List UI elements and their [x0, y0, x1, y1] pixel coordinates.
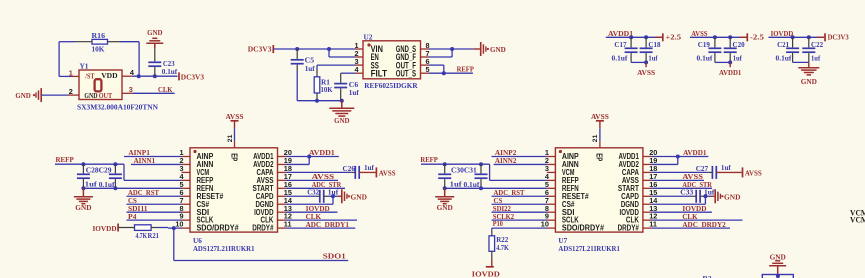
- part number ADS127L21IRUKR1 (U6): [193, 244, 255, 253]
- svg-text:DRDY#: DRDY#: [618, 224, 640, 233]
- ground GND (U2 right, bar style): [473, 42, 506, 56]
- resistor R1: [314, 70, 320, 101]
- capacitor C5: [291, 49, 304, 101]
- label C6: [349, 80, 359, 89]
- value 1uf (C22): [811, 53, 821, 62]
- svg-text:10K: 10K: [321, 85, 333, 94]
- resistor R22: [489, 236, 495, 267]
- svg-text:AVSS: AVSS: [637, 68, 655, 77]
- svg-text:AVSS: AVSS: [379, 168, 396, 177]
- junction at C19: [713, 35, 717, 39]
- svg-text:C22: C22: [811, 40, 823, 49]
- node AVDD1 (U6): [286, 148, 339, 164]
- junction at C30 bottom: [443, 186, 447, 190]
- ground GND (bottom right): [769, 252, 786, 274]
- svg-text:SDO/DRDY#: SDO/DRDY#: [562, 224, 605, 233]
- svg-text:IOVDD: IOVDD: [93, 224, 118, 233]
- wire R16 left to Y1 pin1: [59, 42, 75, 77]
- part number REF6025IDGKR: [364, 81, 418, 90]
- svg-text:C33: C33: [680, 187, 693, 196]
- wire GND_S net: [429, 49, 473, 57]
- pin 2 (U6): [179, 156, 190, 165]
- label C20: [733, 40, 745, 49]
- pin 7 (U7): [545, 196, 556, 205]
- junction bottom (AVDD1): [728, 60, 732, 64]
- connector (bottom edge, partial): [762, 274, 793, 278]
- pin name REFN (U7): [562, 184, 579, 193]
- value 0.1uf (C17): [612, 53, 628, 62]
- junction at C29 top: [113, 162, 117, 166]
- svg-text:C21: C21: [777, 40, 789, 49]
- node AINN2: [494, 156, 547, 165]
- power port AVSS (C26): [376, 167, 395, 177]
- pin name EP (U6): [229, 153, 238, 161]
- pin name AINP (U7): [562, 152, 579, 161]
- svg-text:21: 21: [227, 134, 234, 142]
- crystal symbol Y1: [95, 79, 102, 91]
- pin name EP (U7): [595, 153, 604, 161]
- svg-text:ADS127L21IRUKR1: ADS127L21IRUKR1: [193, 244, 255, 253]
- pin 21 EP (U7): [592, 134, 600, 147]
- resistor R21: [118, 225, 168, 231]
- junction at C20: [728, 35, 732, 39]
- label C21: [777, 40, 789, 49]
- value 0.1uf (C19): [697, 53, 713, 62]
- value 1uf (C32): [328, 187, 339, 196]
- node VCM (upper): [850, 208, 865, 217]
- node CS (U6): [127, 196, 182, 205]
- part number ADS127L21IRUKR1 (U7): [558, 244, 620, 253]
- pin name DGND (U7): [621, 200, 639, 209]
- pin 3 (Y1): [122, 85, 133, 94]
- pin 14 (U6): [278, 196, 293, 205]
- svg-text:ADC_DRDY1: ADC_DRDY1: [306, 220, 349, 229]
- value 1uf (C18): [648, 53, 658, 62]
- node P4: [127, 212, 182, 221]
- node ADC_STR (U6): [286, 180, 345, 189]
- value 0.1uf (C23): [162, 67, 178, 76]
- ground GND (C28/C29, earth style): [74, 188, 93, 212]
- pin 17 (U6): [278, 172, 292, 181]
- pin name OUT_F: [396, 60, 417, 70]
- capacitor C32: [286, 190, 338, 203]
- capacitor C31: [475, 164, 488, 188]
- labels C28 C29: [86, 165, 112, 174]
- pin name AINN (U6): [197, 160, 214, 169]
- pin name DGND (U6): [256, 200, 274, 209]
- junction at R1 bottom: [315, 99, 319, 103]
- svg-text:AVSS: AVSS: [591, 112, 609, 121]
- pin 14 (U7): [643, 196, 658, 205]
- svg-text:C17: C17: [614, 40, 626, 49]
- pin 19 (U6): [278, 156, 292, 165]
- pin 1 (Y1): [69, 68, 79, 77]
- pin name DRDY# (U6): [252, 224, 274, 233]
- wire bottom rail (AVDD1 group): [631, 61, 646, 63]
- node SDI11: [127, 204, 182, 213]
- label C17: [614, 40, 626, 49]
- node AVDD1 (U7): [651, 148, 708, 164]
- pin1 dot (U2): [367, 43, 370, 46]
- node IOVDD (U6 pin13): [286, 204, 337, 213]
- capacitor C26: [286, 166, 376, 179]
- label Y1: [80, 62, 89, 71]
- pin name CAPA (U6): [257, 168, 274, 177]
- svg-text:IOVDD: IOVDD: [771, 29, 794, 38]
- label R1: [321, 78, 330, 87]
- junction at C18: [644, 35, 648, 39]
- pin 2 (U7): [545, 156, 556, 165]
- pin name EN: [371, 52, 379, 62]
- svg-text:0.1uf: 0.1uf: [162, 67, 178, 76]
- svg-text:Y1: Y1: [80, 62, 89, 71]
- wire pin21 (U6): [234, 128, 236, 141]
- op-amp U7 ADS127L21IRUKR1 body: [555, 148, 643, 232]
- svg-text:P10: P10: [493, 219, 503, 228]
- power port +2.5: [655, 32, 682, 41]
- svg-text:REFP: REFP: [420, 155, 438, 164]
- label C26: [343, 164, 356, 173]
- wire Y1 pin4 / DC3V3 rail: [132, 75, 177, 77]
- node AVDD1 (below C20): [719, 62, 741, 77]
- value 10K (R1): [321, 85, 333, 94]
- pin 2 (Y1): [68, 87, 79, 96]
- svg-text:VDD: VDD: [101, 71, 118, 80]
- svg-text:ADS127L21IRUKR1: ADS127L21IRUKR1: [558, 244, 620, 253]
- pin 4 (U6): [179, 172, 190, 181]
- capacitor C18: [640, 37, 653, 62]
- junction at C22: [807, 35, 811, 39]
- crystal Y1: [79, 70, 122, 100]
- node ADC_RST (U6): [127, 188, 182, 197]
- svg-text:10: 10: [541, 220, 549, 229]
- pin name GND_F: [396, 52, 417, 62]
- pin 20 (U6): [278, 148, 292, 157]
- node REFP (U6): [55, 155, 182, 180]
- pin 3 (U6): [179, 164, 190, 173]
- pin name OUT: [99, 91, 113, 100]
- pin1 dot (U7): [559, 150, 562, 153]
- ground GND (C33, bar style): [711, 189, 741, 203]
- pin 19 (U7): [643, 156, 657, 165]
- svg-text:AINN2: AINN2: [495, 156, 517, 165]
- svg-text:AVSS: AVSS: [691, 29, 707, 38]
- wire U2 SS to R1: [317, 65, 355, 70]
- label fragment (bottom edge): [703, 274, 712, 278]
- pin name CAPA (U7): [622, 168, 639, 177]
- power port IOVDD (R21): [93, 224, 119, 234]
- pin 15 (U7): [643, 188, 657, 197]
- capacitor C28: [77, 164, 90, 188]
- label C19: [698, 40, 710, 49]
- pin 15 (U6): [278, 188, 292, 197]
- svg-text:1uf: 1uf: [648, 53, 658, 62]
- pin name VIN: [371, 44, 383, 54]
- svg-text:GND: GND: [801, 77, 818, 86]
- pin name CLK (U6): [261, 216, 274, 225]
- node SDO1: [323, 251, 346, 260]
- value 4.7K (R21): [136, 231, 148, 240]
- svg-text:DRDY#: DRDY#: [252, 224, 274, 233]
- capacitor C33: [651, 190, 711, 203]
- pin 11 (U6): [278, 220, 292, 229]
- junction at C17: [629, 35, 633, 39]
- label R22: [496, 235, 508, 244]
- svg-text:C19: C19: [698, 40, 710, 49]
- power port DC3V3: [817, 32, 849, 41]
- capacitor C20: [724, 37, 737, 62]
- node AVSS (below C18): [637, 62, 655, 77]
- pin name AVDD2 (U7): [619, 160, 640, 169]
- wire REFN rail (U6): [83, 187, 181, 189]
- svg-text:C18: C18: [648, 40, 660, 49]
- junction at C21: [791, 35, 795, 39]
- pin 12 (U7): [643, 212, 657, 221]
- pin 8 (U6): [179, 204, 190, 213]
- value 10K (R16): [92, 45, 105, 54]
- pin name REFP (U6): [197, 176, 214, 185]
- op-amp U2 REF6025IDGKR body: [363, 41, 421, 79]
- value 1uf (C5): [305, 64, 316, 73]
- svg-text:0.1uf: 0.1uf: [776, 53, 792, 62]
- node REFP (U2 output): [457, 65, 475, 74]
- node AINP1: [124, 148, 182, 157]
- pin 4 (U2): [354, 65, 363, 74]
- label C5: [305, 56, 315, 65]
- value 1uf (C28): [85, 180, 98, 189]
- pin 6 (U6): [179, 188, 190, 197]
- part number SX3M32.000A10F20TNN: [77, 102, 159, 111]
- svg-text:DC3V3: DC3V3: [248, 44, 272, 53]
- node ADC_RST (U7): [492, 188, 547, 197]
- svg-text:REFP: REFP: [457, 65, 475, 74]
- svg-text:1uf: 1uf: [811, 53, 821, 62]
- junction AVDD1/AVDD2 (U6): [307, 155, 311, 159]
- junction at C29 bottom: [113, 186, 117, 190]
- pin name RESET# (U7): [562, 192, 589, 201]
- capacitor C17: [625, 37, 638, 62]
- wire P10 to R22: [491, 228, 493, 236]
- pin name DRDY# (U7): [618, 224, 640, 233]
- svg-text:GND: GND: [490, 45, 506, 54]
- pin 9 (U6): [179, 212, 190, 221]
- power port DC3V3 (crystal): [179, 72, 204, 81]
- pin 4 (U7): [545, 172, 556, 181]
- resistor R16: [75, 39, 120, 44]
- junction DGND/CAPD (U7): [703, 194, 707, 198]
- node REFP (U7): [420, 155, 547, 180]
- node ADC_DRDY2: [651, 220, 730, 229]
- svg-text:-2.5: -2.5: [750, 32, 764, 41]
- pin name SDO/DRDY# (U6): [197, 224, 240, 233]
- svg-text:AVDD1: AVDD1: [309, 148, 335, 157]
- svg-text:0.1uf: 0.1uf: [464, 180, 480, 189]
- capacitor C29: [109, 164, 122, 188]
- svg-text:0.1uf: 0.1uf: [99, 180, 115, 189]
- power port AVSS (pin21 U6): [226, 112, 244, 128]
- junction at C28 top: [81, 162, 85, 166]
- junction at C23: [153, 74, 157, 78]
- node IOVDD rail: [769, 29, 825, 38]
- pin 3 (U7): [545, 164, 556, 173]
- svg-text:CLK: CLK: [158, 85, 173, 94]
- node AINN1: [131, 156, 182, 165]
- pin 16 (U7): [643, 180, 657, 189]
- junction at C6 bottom: [340, 99, 344, 103]
- svg-text:GND: GND: [147, 28, 163, 37]
- label C27: [696, 164, 709, 173]
- pin 8 (U7): [545, 204, 556, 213]
- pin name /ST: [84, 71, 94, 80]
- svg-text:/ST: /ST: [84, 71, 94, 80]
- wire REFN rail (U7): [445, 187, 547, 189]
- op-amp U6 ADS127L21IRUKR1 body: [190, 148, 278, 232]
- ground GND (U2, earth style): [329, 101, 354, 126]
- svg-text:OUT_S: OUT_S: [396, 68, 416, 78]
- pin 20 (U7): [643, 148, 657, 157]
- label U7: [558, 236, 567, 245]
- pin 1 (U2): [354, 41, 363, 50]
- pin 4 (Y1): [122, 68, 135, 77]
- node AVSS rail: [690, 29, 746, 38]
- pin 5 (U7): [545, 180, 556, 189]
- pin name GND (Y1): [84, 91, 98, 100]
- junction DGND/CAPD (U6): [331, 194, 335, 198]
- wire OUT_F/OUT_S net: [429, 65, 473, 73]
- value 1uf (C30): [450, 180, 463, 189]
- wire pin21 (U7): [599, 128, 601, 141]
- value 1uf (C20): [733, 53, 743, 62]
- label U2: [364, 32, 373, 41]
- value 0.1uf (C29): [99, 180, 115, 189]
- svg-text:C30C31: C30C31: [451, 165, 477, 174]
- svg-text:4.7K: 4.7K: [496, 243, 509, 252]
- svg-text:OUT: OUT: [99, 91, 113, 100]
- ground GND above C23: [146, 28, 163, 48]
- pin name SCLK (U6): [197, 216, 214, 225]
- svg-text:4.7K: 4.7K: [136, 231, 148, 240]
- pin name CLK (U7): [626, 216, 639, 225]
- svg-text:U2: U2: [364, 32, 373, 41]
- pin name SDI (U6): [197, 208, 210, 217]
- svg-text:1uf: 1uf: [733, 53, 743, 62]
- pin name SDO/DRDY# (U7): [562, 224, 605, 233]
- node P10: [492, 219, 547, 228]
- label C18: [648, 40, 660, 49]
- pin name CS# (U6): [197, 200, 210, 209]
- pin1 dot (U6): [193, 150, 196, 153]
- pin 9 (U7): [545, 212, 556, 221]
- pin 18 (U7): [643, 164, 657, 173]
- power port IOVDD (R22): [472, 267, 501, 278]
- wire U2 FILT to C6: [341, 72, 355, 74]
- svg-text:FILT: FILT: [371, 68, 388, 78]
- capacitor C21: [786, 37, 799, 62]
- power port -2.5: [739, 32, 764, 41]
- svg-text:+2.5: +2.5: [665, 32, 681, 41]
- wire bottom rail (AVSS group): [715, 61, 730, 63]
- pin name REFN (U6): [197, 184, 214, 193]
- value 4.7K (R22): [496, 243, 509, 252]
- labels C30 C31: [451, 165, 477, 174]
- svg-text:10K: 10K: [92, 45, 105, 54]
- svg-text:C28C29: C28C29: [86, 165, 112, 174]
- pin name GND_S: [396, 44, 416, 54]
- pin name AINN (U7): [562, 160, 579, 169]
- node CLK (crystal out): [132, 85, 174, 94]
- pin 5 (U2): [421, 65, 430, 74]
- junction AVDD1/AVDD2 (U7): [676, 155, 680, 159]
- svg-text:GND: GND: [334, 116, 350, 125]
- junction at R16/pin4: [137, 74, 141, 78]
- svg-text:EP: EP: [595, 153, 604, 161]
- pin 1 (U6): [179, 148, 190, 157]
- svg-text:11: 11: [649, 220, 657, 229]
- node VCM (lower): [850, 216, 865, 225]
- pin name AVSS (U6): [257, 176, 274, 185]
- ground GND (Y1 pin2, bar style): [15, 88, 41, 102]
- svg-text:VCM: VCM: [850, 216, 865, 225]
- value 1uf (C26): [364, 163, 374, 172]
- node ADC_DRDY1: [286, 220, 355, 229]
- pin 8 (U2): [421, 41, 430, 50]
- power port AVSS (C27): [743, 167, 762, 177]
- pin 12 (U6): [278, 212, 292, 221]
- pin 17 (U7): [643, 172, 657, 181]
- pin 7 (U6): [179, 196, 190, 205]
- junction at EN branch: [327, 47, 331, 51]
- svg-text:REFP: REFP: [56, 155, 75, 164]
- wire DC3V3 to U2 VIN: [273, 48, 355, 50]
- svg-text:R16: R16: [92, 31, 106, 40]
- node AVSS (U7 pin17): [651, 172, 704, 181]
- label R21: [148, 231, 160, 240]
- pin 13 (U6): [278, 204, 292, 213]
- svg-text:R21: R21: [148, 231, 160, 240]
- label C33: [680, 187, 693, 196]
- svg-text:DC3V3: DC3V3: [181, 73, 204, 82]
- wire SDO/DRDY# to R21 and SDO1: [168, 228, 348, 261]
- wire EN branch: [329, 49, 355, 57]
- svg-text:C20: C20: [733, 40, 745, 49]
- pin 13 (U7): [643, 204, 657, 213]
- node AVSS (U6 pin17): [286, 172, 338, 181]
- pin name VCM (U7): [562, 168, 575, 177]
- power port AVSS (pin21 U7): [591, 112, 609, 128]
- pin 2 (U2): [354, 49, 363, 58]
- svg-text:ADC_DRDY2: ADC_DRDY2: [682, 220, 725, 229]
- pin name REFP (U7): [562, 176, 579, 185]
- svg-text:SX3M32.000A10F20TNN: SX3M32.000A10F20TNN: [77, 102, 159, 111]
- pin name AVDD1 (U6): [253, 152, 274, 161]
- node CS (U7): [492, 196, 547, 205]
- value 0.1uf (C21): [776, 53, 792, 62]
- pin name CAPD (U7): [621, 192, 639, 201]
- svg-text:GND: GND: [351, 192, 368, 201]
- value 0.1uf (C31): [464, 180, 480, 189]
- node ADC_STR (U7): [651, 180, 712, 189]
- node SDI22: [492, 204, 547, 213]
- svg-text:C26: C26: [343, 164, 356, 173]
- svg-text:GND: GND: [437, 203, 454, 212]
- pin 10 (U6): [175, 220, 190, 229]
- pin name AVDD1 (U7): [619, 152, 640, 161]
- svg-text:C32: C32: [307, 187, 319, 196]
- wire Y1 pin2 to GND: [41, 94, 68, 96]
- svg-text:SDO1: SDO1: [323, 251, 346, 260]
- value 1uf (C6): [349, 88, 360, 97]
- wire R16 right to node: [120, 42, 139, 76]
